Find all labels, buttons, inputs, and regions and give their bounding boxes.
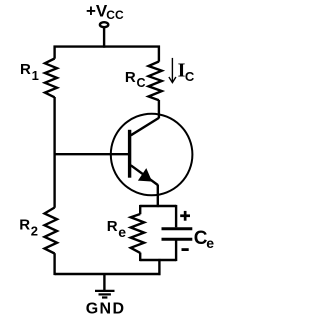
wire base xyxy=(55,153,130,155)
transistor Q1 emitter diagonal xyxy=(131,165,158,185)
wire emitter top junction xyxy=(140,205,176,207)
svg-text:R: R xyxy=(125,69,136,86)
transistor Q1 collector diagonal xyxy=(131,118,159,135)
svg-text:1: 1 xyxy=(32,68,39,83)
svg-text:e: e xyxy=(206,235,214,251)
wire emitter lead xyxy=(157,185,159,208)
svg-text:e: e xyxy=(118,224,126,240)
wire Re bottom lead xyxy=(139,253,141,262)
label minus sign xyxy=(182,248,189,251)
svg-text:+V: +V xyxy=(86,1,108,20)
wire left column mid xyxy=(53,97,55,208)
resistor Rc xyxy=(149,62,162,101)
wire Vcc stub xyxy=(103,26,105,48)
wire bottom rail xyxy=(55,273,161,275)
resistor R1 xyxy=(45,59,57,98)
wire Rc top lead xyxy=(158,46,160,62)
svg-text:GND: GND xyxy=(86,301,126,318)
wire Ce top lead xyxy=(175,205,177,227)
transistor Q1 base bar xyxy=(128,130,131,178)
transistor Q1 emitter arrowhead xyxy=(139,169,152,181)
ground bar 2 xyxy=(99,293,111,295)
svg-text:C: C xyxy=(137,76,146,90)
svg-text:2: 2 xyxy=(31,224,38,239)
svg-text:R: R xyxy=(20,61,31,78)
Vcc terminal circle xyxy=(100,22,108,27)
resistor Re xyxy=(131,214,144,253)
svg-text:C: C xyxy=(185,69,195,84)
resistor R2 xyxy=(45,208,58,254)
svg-text:CC: CC xyxy=(106,8,124,22)
wire top rail xyxy=(54,45,161,47)
wire junction drop xyxy=(158,259,160,275)
transistor Q1 circle xyxy=(111,114,193,196)
wire R2 bottom lead xyxy=(53,253,55,275)
capacitor Ce top plate xyxy=(162,227,193,230)
ground bar 1 xyxy=(95,290,115,292)
wire R1 top lead xyxy=(53,46,55,59)
label plus sign xyxy=(180,214,190,217)
ground bar 3 xyxy=(102,296,107,298)
capacitor Ce bottom plate xyxy=(162,238,193,241)
current arrow Ic xyxy=(169,58,176,83)
ground stub xyxy=(103,274,105,290)
svg-text:R: R xyxy=(107,218,118,235)
wire Re top lead xyxy=(139,205,141,214)
svg-text:R: R xyxy=(19,216,30,233)
wire collector lead xyxy=(158,100,160,118)
wire Ce bottom lead xyxy=(175,241,177,262)
wire bottom junction xyxy=(140,259,176,261)
